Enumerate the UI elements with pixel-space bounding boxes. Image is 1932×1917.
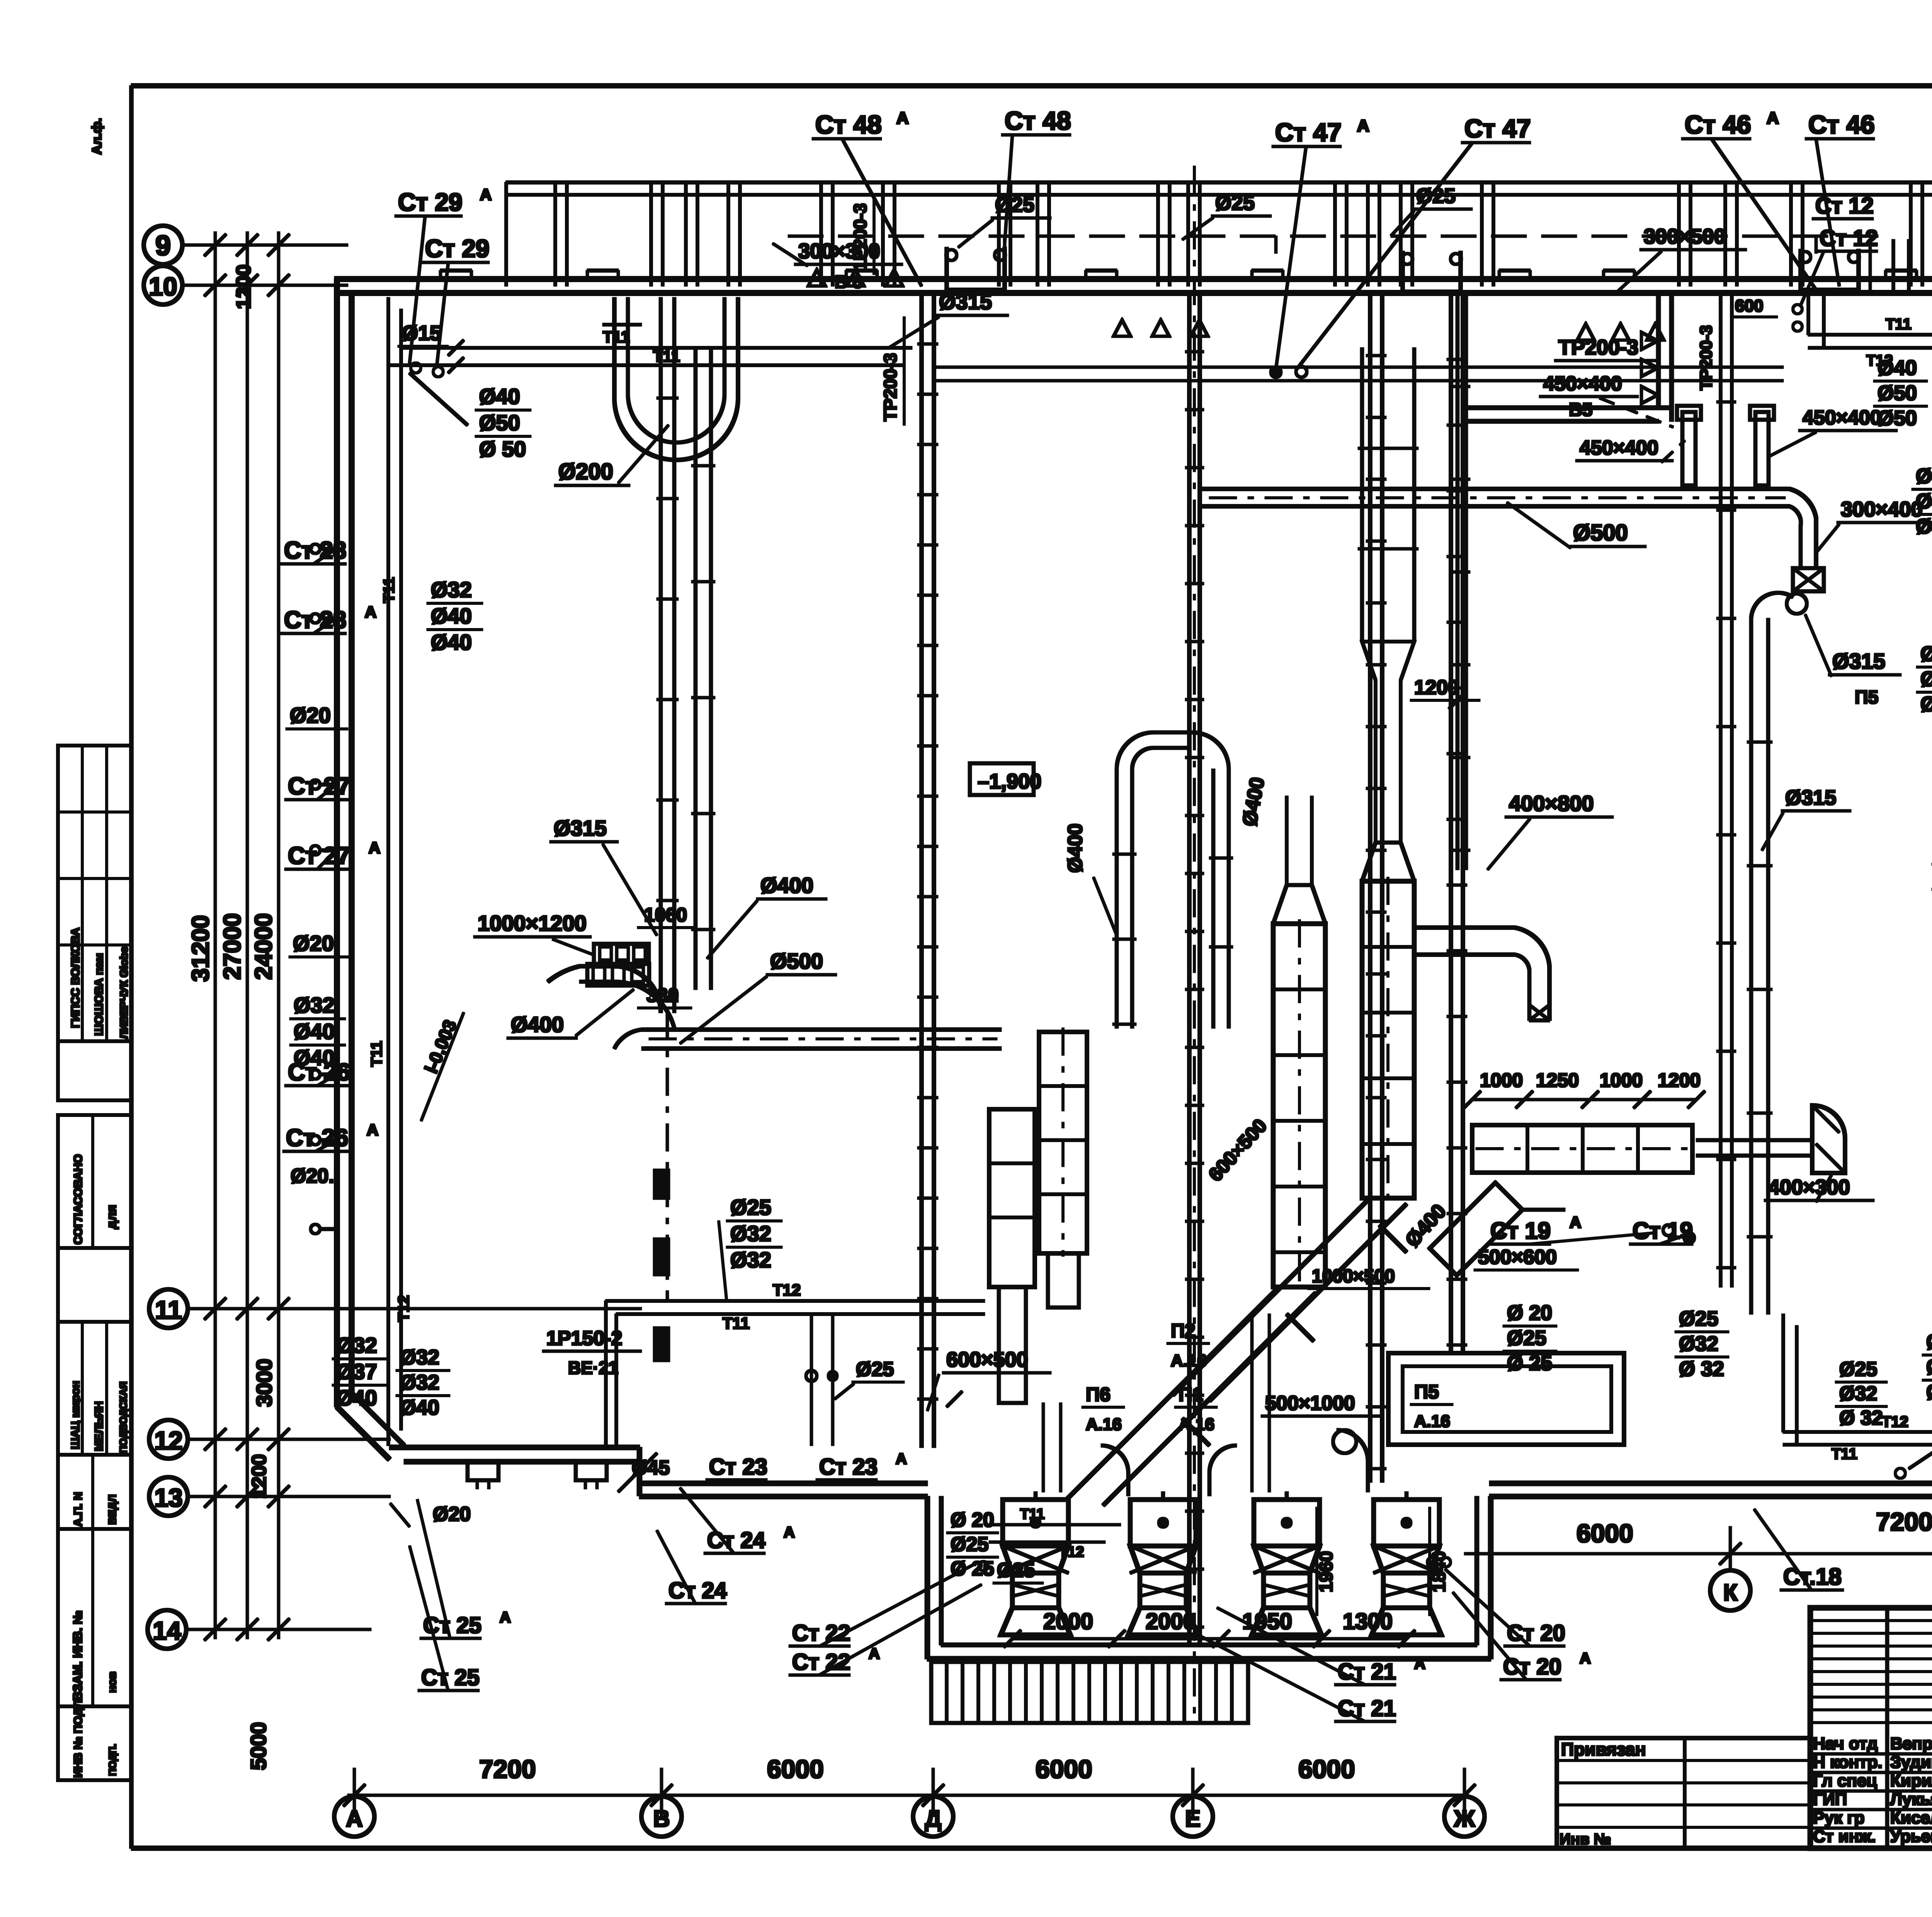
svg-text:А: А	[1357, 116, 1369, 135]
tall segmented duct B	[989, 1109, 1035, 1287]
left stamp column boxes	[58, 746, 131, 1041]
omega duct fi200 top-left	[614, 298, 738, 460]
svg-text:А: А	[896, 1451, 907, 1468]
svg-text:Ал.ф.: Ал.ф.	[90, 118, 104, 155]
axis circle 12	[149, 1420, 188, 1459]
svg-text:Ø400: Ø400	[760, 873, 813, 897]
svg-text:ГИП: ГИП	[1813, 1790, 1847, 1809]
elbow 300x400 down	[1789, 489, 1816, 568]
svg-text:нов: нов	[106, 1672, 119, 1693]
valve box 1000x1200	[594, 944, 649, 964]
svg-text:Ø50: Ø50	[1878, 407, 1917, 430]
svg-text:Ø 25: Ø 25	[1507, 1352, 1552, 1375]
svg-text:Н контр.: Н контр.	[1813, 1753, 1883, 1772]
svg-text:А.16: А.16	[1086, 1415, 1122, 1434]
duct chain tail to 400x300 elbow	[1696, 1139, 1812, 1142]
svg-text:Ст 27: Ст 27	[288, 843, 350, 869]
level mark -1.900	[970, 763, 1034, 795]
svg-text:А: А	[500, 1609, 511, 1626]
svg-text:Ø20: Ø20	[293, 931, 334, 955]
svg-text:Ст 22: Ст 22	[792, 1621, 850, 1646]
svg-text:А: А	[480, 186, 492, 204]
svg-text:600: 600	[1735, 296, 1763, 315]
svg-text:Урьев: Урьев	[1890, 1827, 1932, 1846]
svg-text:Ø25: Ø25	[1679, 1307, 1718, 1330]
svg-text:11: 11	[155, 1296, 182, 1324]
svg-text:300×400: 300×400	[1841, 498, 1923, 521]
svg-text:К: К	[1723, 1580, 1738, 1605]
svg-text:Ø315: Ø315	[554, 816, 607, 840]
top right heat pipes T11 T12	[1808, 334, 1932, 336]
svg-text:Ø32: Ø32	[730, 1221, 771, 1246]
svg-text:1000×1200: 1000×1200	[478, 911, 587, 935]
left wall	[335, 279, 340, 1407]
fan unit 3	[1254, 1500, 1320, 1546]
duct C taper top	[1273, 885, 1325, 924]
vertical dashdot riser x4460	[1719, 294, 1722, 1287]
axis circle 14	[148, 1610, 186, 1649]
svg-text:6000: 6000	[1298, 1755, 1355, 1783]
svg-text:Т12: Т12	[1866, 352, 1893, 369]
pipe drops center bottom	[1042, 1403, 1044, 1492]
svg-text:А.16: А.16	[1171, 1351, 1207, 1370]
fan unit 2	[1130, 1500, 1196, 1546]
svg-text:Ø32: Ø32	[1679, 1332, 1718, 1355]
stamp box 2	[58, 1041, 131, 1100]
svg-text:ЛИВЕРЧУК Globe: ЛИВЕРЧУК Globe	[118, 947, 130, 1039]
svg-text:ВЗАМ. ИНВ. №: ВЗАМ. ИНВ. №	[71, 1611, 85, 1701]
svg-text:Ст 21: Ст 21	[1338, 1659, 1396, 1684]
svg-text:А.16: А.16	[1179, 1415, 1214, 1434]
stamp box 8 inv podl	[58, 1706, 131, 1780]
svg-text:Ø32: Ø32	[400, 1346, 439, 1369]
svg-text:Киселева: Киселева	[1890, 1808, 1932, 1827]
svg-text:Ø200: Ø200	[558, 459, 613, 484]
svg-text:Ø25: Ø25	[1416, 184, 1456, 208]
axis circle A bottom	[334, 1796, 374, 1837]
svg-text:СОГЛАСОВАНО: СОГЛАСОВАНО	[72, 1154, 85, 1245]
svg-text:Ø32: Ø32	[431, 577, 472, 602]
axis circle Zh bottom	[1444, 1796, 1485, 1837]
svg-text:Ø 20: Ø 20	[951, 1509, 994, 1531]
svg-text:А: А	[1580, 1650, 1591, 1667]
svg-text:5000: 5000	[246, 1722, 270, 1770]
p-trap 2	[1403, 251, 1461, 292]
title block outer	[1810, 1608, 1932, 1848]
axis circle 9	[144, 226, 182, 264]
svg-text:А: А	[367, 1121, 378, 1139]
svg-text:Ø25: Ø25	[1926, 1330, 1932, 1353]
svg-text:7200: 7200	[479, 1755, 536, 1783]
left inner heating pipe T11	[387, 298, 390, 1445]
svg-text:Т12: Т12	[773, 1281, 801, 1299]
svg-text:Ø25: Ø25	[1215, 191, 1255, 215]
bottom dimension line right part	[1464, 1553, 1932, 1555]
duct B neck down	[999, 1287, 1026, 1403]
stamp box 4	[58, 1248, 131, 1322]
diagonal duct from D	[1173, 1198, 1406, 1401]
fan unit 1	[1003, 1500, 1068, 1546]
duct elbow fi315 upper-left	[548, 966, 661, 1013]
svg-text:1200: 1200	[1658, 1069, 1701, 1091]
left wall lower chamfer	[337, 1407, 389, 1459]
svg-text:П5: П5	[1855, 687, 1878, 708]
axis circle D bottom	[913, 1796, 953, 1837]
svg-text:П1: П1	[1179, 1384, 1203, 1405]
svg-text:Ст 24: Ст 24	[668, 1578, 727, 1603]
left wall tap stubs	[319, 547, 337, 550]
heat pipe T11 horizontal top-left	[401, 347, 912, 349]
riser pipe pair fi315 left	[659, 298, 662, 1013]
grill comb below protrusion	[931, 1662, 1248, 1723]
svg-text:Т11: Т11	[1832, 1445, 1857, 1462]
protrusion bottom wall	[927, 1657, 1491, 1661]
svg-text:А: А	[869, 1645, 880, 1662]
svg-text:500×600: 500×600	[1478, 1246, 1557, 1268]
heating pipes below top wall middle	[934, 366, 1783, 368]
svg-text:9: 9	[155, 230, 171, 261]
svg-text:ВЕДЛ: ВЕДЛ	[106, 1495, 118, 1525]
svg-text:Ø315: Ø315	[1785, 786, 1836, 809]
corridor wall pair 1	[920, 294, 923, 1447]
tall segmented duct A	[1039, 1032, 1087, 1253]
bottom wall segment B	[639, 1481, 927, 1486]
svg-text:Ст 28: Ст 28	[284, 607, 346, 633]
tall segmented duct C	[1273, 924, 1325, 1287]
svg-text:14: 14	[153, 1616, 181, 1645]
triangles top-left band	[808, 270, 903, 286]
bottom wall segment C	[1490, 1481, 1932, 1486]
svg-text:ПОДП.: ПОДП.	[107, 1744, 118, 1776]
svg-text:Д: Д	[925, 1806, 942, 1832]
sanitary dashed line fi25	[788, 235, 1893, 237]
svg-text:для: для	[104, 1205, 119, 1229]
svg-text:Ст 20: Ст 20	[1503, 1654, 1561, 1679]
svg-text:6000: 6000	[767, 1755, 824, 1783]
svg-text:Т11: Т11	[653, 347, 680, 365]
corridor centerline dashdot	[1194, 166, 1196, 1724]
svg-text:31200: 31200	[187, 915, 214, 982]
svg-text:ГИПСС ВОЛКОВА: ГИПСС ВОЛКОВА	[69, 928, 82, 1028]
axis circle 10	[144, 266, 182, 305]
vertical pipe fi400 c2	[1212, 769, 1215, 1028]
corridor wall pair 4	[1449, 294, 1453, 1353]
duct D taper top	[1362, 843, 1414, 881]
svg-text:А: А	[346, 1806, 362, 1832]
svg-text:10: 10	[149, 272, 177, 301]
top facade band upper line	[506, 181, 1932, 184]
svg-text:Ø315: Ø315	[939, 289, 992, 314]
svg-text:Т11: Т11	[603, 328, 630, 346]
svg-text:Вепринский: Вепринский	[1890, 1734, 1932, 1753]
svg-text:МЕЛЬЯН: МЕЛЬЯН	[93, 1401, 105, 1451]
axis circle 11	[149, 1289, 188, 1328]
svg-text:А: А	[365, 603, 376, 621]
svg-text:Ø40: Ø40	[294, 1019, 335, 1044]
svg-text:Ст 48: Ст 48	[1005, 106, 1071, 135]
svg-text:Ø32: Ø32	[400, 1371, 439, 1394]
svg-text:Ст 27: Ст 27	[288, 773, 350, 800]
svg-text:Ø37: Ø37	[336, 1359, 377, 1384]
svg-text:А: А	[1414, 1655, 1425, 1672]
svg-text:Ø25: Ø25	[1839, 1358, 1877, 1381]
axis circle K bottom	[1710, 1570, 1750, 1611]
svg-text:1960: 1960	[1316, 1551, 1337, 1592]
svg-text:Ст 46: Ст 46	[1808, 110, 1875, 139]
svg-text:П6: П6	[1086, 1384, 1111, 1405]
svg-text:400×800: 400×800	[1509, 791, 1594, 815]
svg-text:Ø500: Ø500	[1573, 520, 1628, 545]
svg-text:Т11: Т11	[1886, 316, 1912, 333]
svg-text:А: А	[784, 1524, 795, 1541]
protrusion right wall	[1488, 1496, 1493, 1659]
svg-text:Кириллова: Кириллова	[1890, 1771, 1932, 1790]
svg-text:Гл спец: Гл спец	[1813, 1771, 1877, 1790]
svg-text:В5: В5	[1569, 400, 1592, 420]
svg-text:Ø15: Ø15	[402, 322, 441, 345]
svg-text:1000×500: 1000×500	[1312, 1266, 1395, 1287]
svg-text:Ø 25: Ø 25	[951, 1558, 994, 1580]
svg-text:Ст 12: Ст 12	[1820, 226, 1878, 251]
svg-text:Ж: Ж	[1454, 1806, 1475, 1832]
svg-text:1300: 1300	[1343, 1609, 1393, 1634]
axis circle E bottom	[1173, 1796, 1213, 1837]
triangles small middle	[1114, 320, 1208, 336]
svg-text:Ø25: Ø25	[995, 193, 1034, 216]
horizontal duct chain right-center	[1472, 1125, 1692, 1173]
svg-text:Ø500: Ø500	[770, 949, 823, 973]
protrusion inner dim line	[1012, 1638, 1406, 1640]
svg-text:А: А	[896, 109, 909, 128]
small elbows bottom band	[1101, 1445, 1128, 1496]
svg-text:Т11: Т11	[381, 577, 398, 603]
svg-text:Т12: Т12	[395, 1295, 412, 1322]
svg-text:Ø50: Ø50	[479, 410, 520, 435]
bottom pipes T11 T12 under protrusion	[989, 1524, 1121, 1526]
svg-text:6000: 6000	[1036, 1755, 1092, 1783]
horizontal duct 500 left	[642, 1028, 1001, 1032]
svg-text:Ø40: Ø40	[400, 1396, 439, 1419]
svg-text:Ø40: Ø40	[336, 1386, 377, 1410]
privyazan box	[1557, 1738, 1810, 1848]
svg-text:–1,900: –1,900	[978, 770, 1041, 793]
svg-text:Ø400: Ø400	[511, 1012, 564, 1037]
svg-text:Зудина: Зудина	[1890, 1753, 1932, 1772]
svg-text:Ø25: Ø25	[951, 1533, 988, 1556]
svg-text:Ø32: Ø32	[1916, 465, 1932, 488]
big horizontal duct fi500 to 300x400 elbow	[1200, 487, 1789, 491]
main top wall	[335, 277, 1932, 282]
diagonal duct from C	[1066, 1287, 1316, 1505]
svg-text:600×500: 600×500	[946, 1348, 1028, 1371]
duct 400x800 elbow right-center	[1416, 926, 1515, 930]
svg-text:Ø40: Ø40	[1920, 693, 1932, 716]
svg-text:27000: 27000	[219, 913, 246, 980]
svg-text:1200: 1200	[233, 264, 255, 309]
sheet frame	[131, 84, 1932, 88]
svg-text:Ø 32: Ø 32	[1679, 1357, 1724, 1381]
svg-text:ШОШОВА пам: ШОШОВА пам	[93, 953, 105, 1036]
svg-text:Ст 28: Ст 28	[284, 537, 346, 564]
svg-text:Ø40: Ø40	[431, 630, 472, 654]
svg-text:1000: 1000	[1600, 1069, 1643, 1091]
svg-text:400×300: 400×300	[1768, 1176, 1850, 1199]
elbow 400x300	[1812, 1105, 1845, 1173]
svg-text:Ø50: Ø50	[1878, 381, 1917, 405]
svg-text:Ст 23: Ст 23	[819, 1454, 878, 1479]
svg-text:Ø40: Ø40	[431, 604, 472, 628]
svg-text:Т11: Т11	[368, 1041, 385, 1067]
corridor wall pair 2	[1188, 294, 1191, 1643]
svg-text:7200: 7200	[1876, 1507, 1932, 1536]
svg-text:Ст 47: Ст 47	[1464, 114, 1531, 143]
svg-text:Ø20: Ø20	[290, 703, 331, 727]
stamp box 3	[58, 1115, 131, 1248]
svg-text:24000: 24000	[250, 913, 277, 980]
svg-text:Ø40: Ø40	[479, 384, 520, 409]
svg-text:Ø 50: Ø 50	[479, 437, 526, 461]
svg-text:П2: П2	[1171, 1320, 1196, 1342]
inner box right of protrusion	[1388, 1353, 1624, 1445]
svg-text:Ø400: Ø400	[1064, 824, 1087, 873]
svg-text:Ø40: Ø40	[1916, 490, 1932, 513]
svg-text:А: А	[1570, 1213, 1581, 1231]
fan unit 4	[1374, 1500, 1439, 1546]
svg-text:Ø40: Ø40	[1920, 667, 1932, 691]
svg-text:Привязан: Привязан	[1561, 1739, 1646, 1759]
svg-text:12: 12	[154, 1426, 182, 1455]
corridor wall pair 3	[1369, 294, 1372, 1482]
tall segmented duct D	[1362, 881, 1414, 1198]
svg-text:1000: 1000	[1480, 1069, 1523, 1091]
svg-text:6000: 6000	[1577, 1519, 1633, 1548]
svg-text:Ст 29: Ст 29	[425, 235, 490, 262]
svg-text:Ст 26: Ст 26	[286, 1125, 348, 1151]
triangles right band	[1577, 324, 1664, 340]
duct stubs 450x400	[1682, 412, 1696, 485]
svg-text:ШАЦ мирон: ШАЦ мирон	[69, 1381, 82, 1449]
svg-text:Ст инж.: Ст инж.	[1813, 1827, 1876, 1846]
svg-text:1060: 1060	[644, 904, 687, 926]
svg-text:Ø32: Ø32	[1839, 1382, 1877, 1405]
bottom wall step	[637, 1447, 642, 1496]
svg-text:Ст 25: Ст 25	[421, 1665, 480, 1690]
svg-text:Ø32: Ø32	[730, 1248, 771, 1272]
svg-text:Ст 21: Ст 21	[1338, 1696, 1396, 1721]
svg-text:450×400: 450×400	[1543, 373, 1622, 395]
svg-text:Е: Е	[1185, 1806, 1201, 1832]
svg-text:450×400: 450×400	[1580, 437, 1658, 459]
svg-text:500×1000: 500×1000	[1265, 1392, 1355, 1415]
svg-text:Ст 29: Ст 29	[398, 188, 463, 216]
top wall cap marks	[440, 269, 471, 272]
svg-text:1840: 1840	[1429, 1551, 1449, 1592]
svg-text:13: 13	[154, 1483, 182, 1512]
svg-text:450×400: 450×400	[1803, 407, 1881, 429]
svg-text:ИНВ № ПОДЛ: ИНВ № ПОДЛ	[72, 1700, 85, 1778]
svg-text:Ø20.: Ø20.	[291, 1165, 334, 1187]
svg-text:А: А	[369, 839, 380, 857]
vertical dimension lines left	[214, 232, 216, 1639]
vertical duct fi500 right-center	[1456, 294, 1459, 870]
svg-text:Ø40: Ø40	[1916, 515, 1932, 538]
p-trap 3	[1801, 249, 1859, 290]
riser pipe fi400 left	[694, 350, 697, 989]
svg-text:Ст 25: Ст 25	[423, 1613, 481, 1638]
facade band pilasters	[554, 182, 557, 286]
svg-text:П5: П5	[1414, 1381, 1439, 1403]
axis circle B bottom	[641, 1796, 682, 1837]
bottom dimension line left part	[348, 1794, 1468, 1796]
svg-text:Ø32: Ø32	[294, 993, 335, 1017]
name rows	[1810, 1753, 1932, 1755]
title block small table columns	[1886, 1608, 1889, 1848]
vertical pipe fi400 c1	[1115, 769, 1118, 1028]
svg-text:1950: 1950	[1242, 1609, 1292, 1634]
svg-text:Ст 12: Ст 12	[1815, 193, 1874, 218]
bottom wall segment A	[389, 1445, 639, 1450]
svg-text:3000: 3000	[252, 1359, 276, 1407]
svg-text:Ø25: Ø25	[730, 1195, 771, 1219]
stamp box 7 vzam inv	[58, 1529, 131, 1706]
svg-text:Ст.18: Ст.18	[1783, 1564, 1842, 1590]
small table thin rows	[1810, 1620, 1932, 1622]
svg-text:Ø315: Ø315	[1832, 649, 1885, 673]
svg-text:Ø25: Ø25	[856, 1358, 894, 1381]
svg-text:Ø40: Ø40	[294, 1045, 335, 1070]
svg-text:Ст 47: Ст 47	[1275, 118, 1342, 146]
st12 riser stub top	[1892, 240, 1895, 293]
svg-text:Ø 20: Ø 20	[1507, 1301, 1552, 1325]
svg-text:1200: 1200	[1414, 676, 1459, 699]
pipes down from T junction	[810, 1314, 813, 1445]
svg-text:Ø25: Ø25	[1507, 1326, 1546, 1350]
duct A lower neck	[1048, 1253, 1079, 1308]
stamp box 5	[58, 1322, 131, 1455]
svg-text:А.16: А.16	[1414, 1412, 1450, 1431]
svg-text:А: А	[1767, 109, 1779, 128]
svg-text:Ст 48: Ст 48	[815, 110, 882, 139]
axis circle 13	[149, 1477, 188, 1516]
svg-text:Ø 32: Ø 32	[1839, 1407, 1883, 1429]
svg-text:ПОДВОДСКАЯ: ПОДВОДСКАЯ	[117, 1381, 129, 1453]
svg-text:Инв №: Инв №	[1560, 1831, 1611, 1848]
svg-text:Рук гр: Рук гр	[1813, 1808, 1864, 1827]
p-trap 1	[947, 247, 1005, 290]
bottom heat pipes right section	[1783, 1431, 1932, 1433]
svg-text:Лукьянова: Лукьянова	[1890, 1790, 1932, 1809]
svg-text:В: В	[653, 1806, 670, 1832]
svg-text:330: 330	[646, 984, 679, 1006]
svg-text:Т12: Т12	[1882, 1413, 1908, 1430]
riser pipe fi315 P5	[1750, 618, 1753, 1314]
protrusion left wall	[925, 1496, 930, 1659]
svg-text:Ø32: Ø32	[336, 1333, 377, 1357]
svg-text:1Р200-3: 1Р200-3	[850, 203, 870, 271]
svg-text:ТР200-3: ТР200-3	[1697, 325, 1716, 390]
svg-text:1Р150-2: 1Р150-2	[546, 1327, 622, 1350]
inner room wall top right	[1464, 406, 1672, 410]
svg-text:Т11: Т11	[723, 1314, 750, 1332]
bottom heat pipes T12 T11 left room	[606, 1300, 985, 1302]
svg-text:ВЕ·21: ВЕ·21	[568, 1358, 618, 1378]
svg-text:Нач отд: Нач отд	[1813, 1734, 1878, 1753]
svg-text:Ст 46: Ст 46	[1685, 110, 1751, 139]
svg-text:А.П. N: А.П. N	[72, 1492, 85, 1527]
duct chain dim line	[1472, 1098, 1696, 1101]
svg-text:Ст 23: Ст 23	[709, 1454, 767, 1479]
svg-text:Ø32: Ø32	[1926, 1355, 1932, 1379]
